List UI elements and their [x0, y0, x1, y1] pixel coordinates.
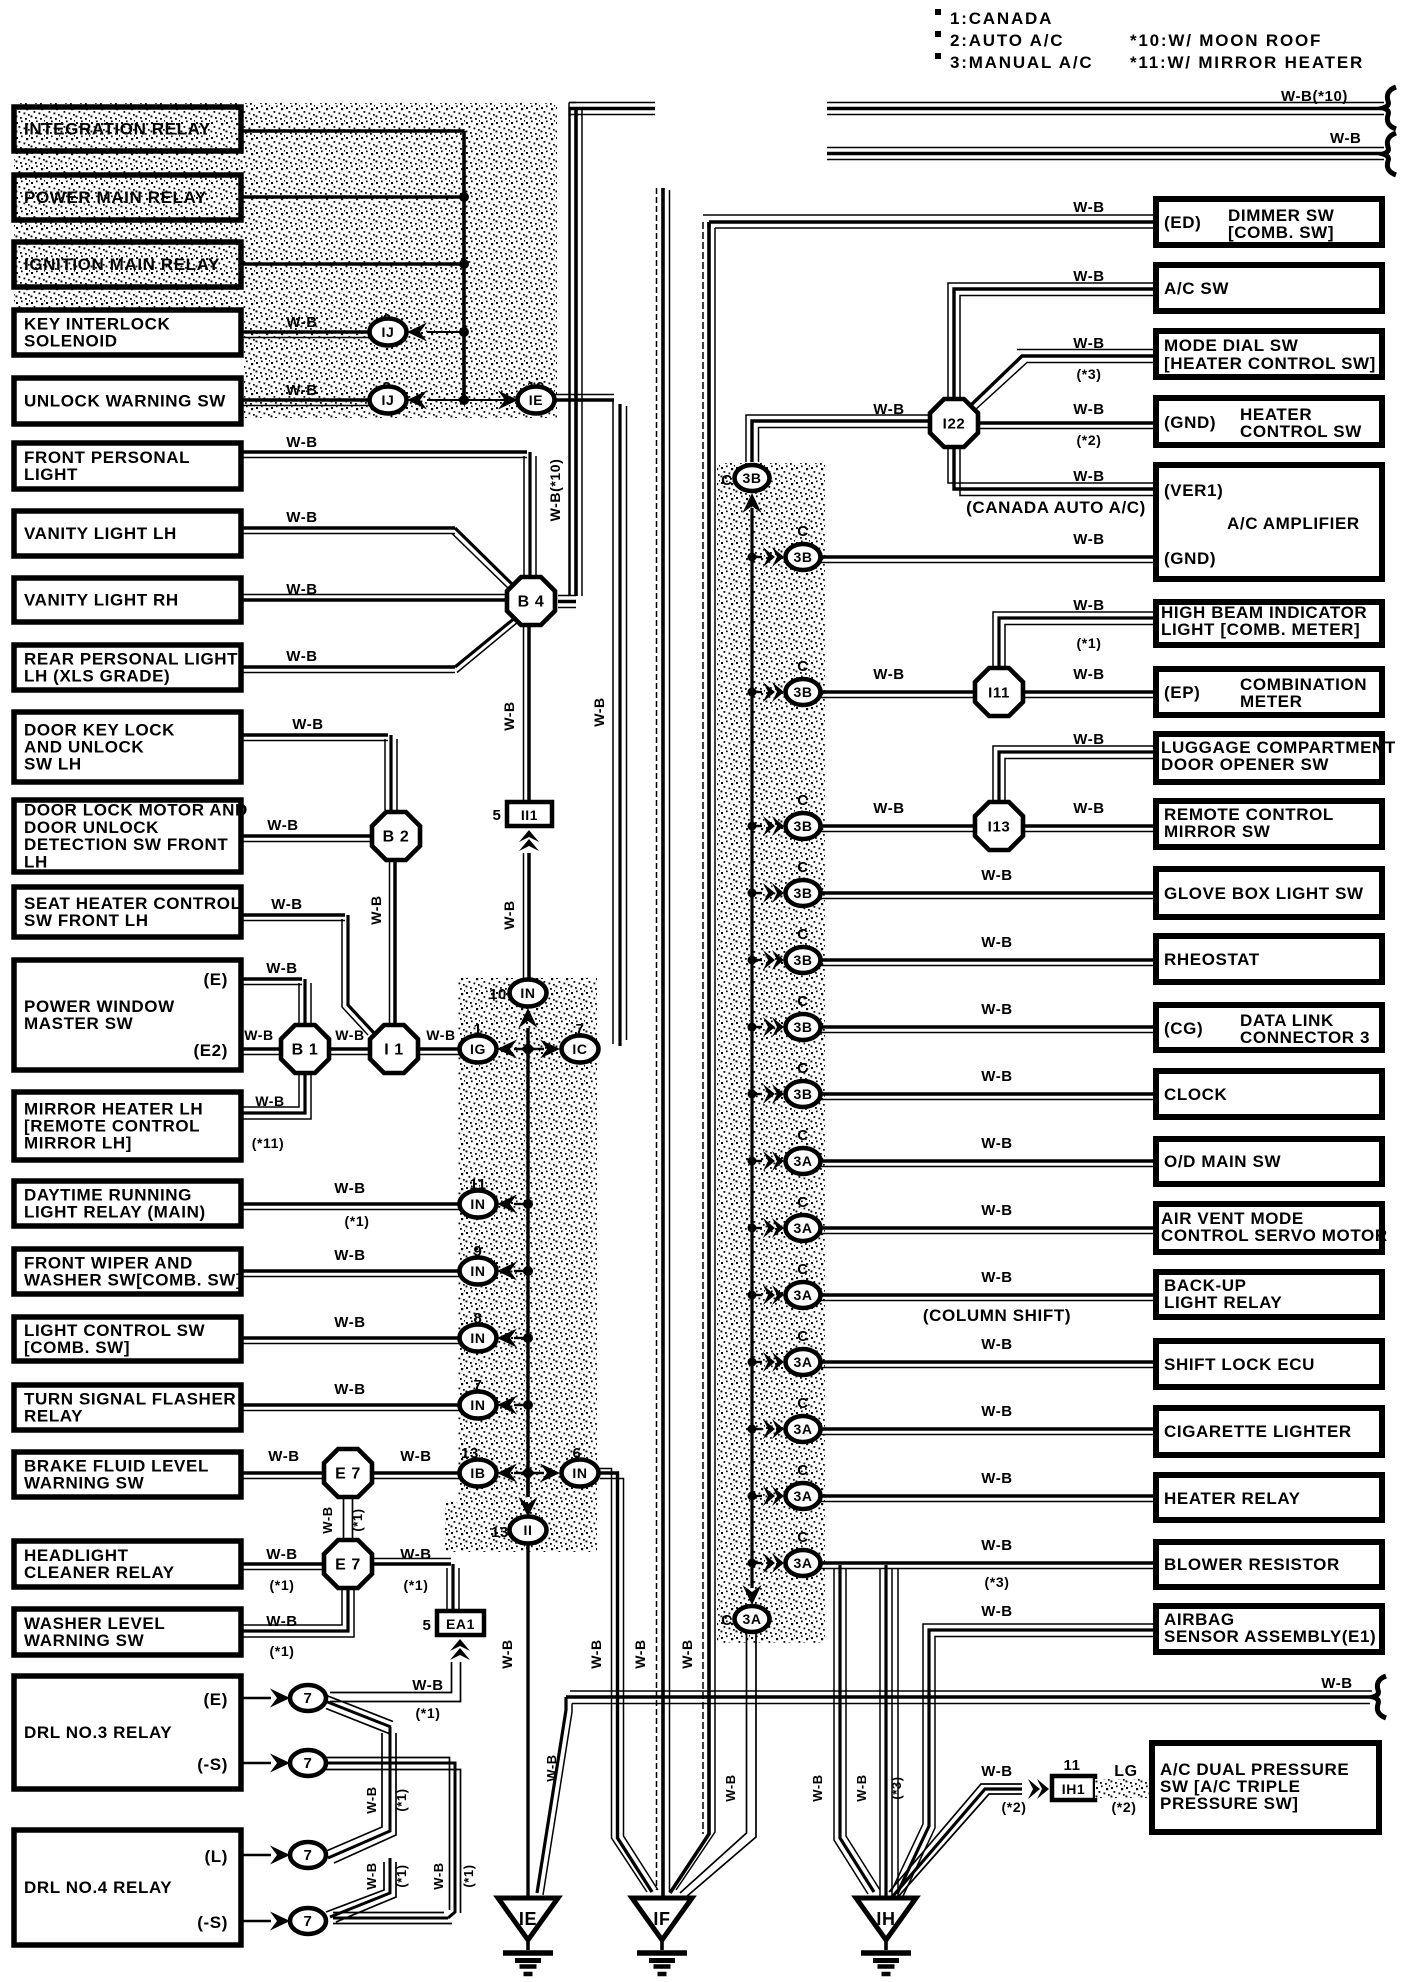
box CLOCK [1156, 1071, 1382, 1117]
svg-text:W-B: W-B [873, 401, 905, 418]
svg-text:C: C [797, 1328, 808, 1345]
junction right bus row y1295 [748, 1291, 757, 1300]
svg-text:W-B: W-B [334, 1247, 366, 1264]
box DIMMER SW [1156, 199, 1382, 245]
svg-text:W-B: W-B [981, 1135, 1013, 1152]
svg-text:LIGHT: LIGHT [24, 465, 78, 484]
wire 3B to A/C AMP GND W-B [821, 555, 1154, 559]
junction relay collector at POWER [459, 192, 469, 202]
wire centre bus to IE ground W-B [526, 1544, 529, 1898]
svg-text:REAR PERSONAL LIGHT: REAR PERSONAL LIGHT [24, 649, 238, 668]
svg-text:KEY INTERLOCK: KEY INTERLOCK [24, 314, 170, 333]
wire 3A row y1362 W-B [821, 1360, 1156, 1364]
svg-text:IC: IC [572, 1041, 587, 1057]
wire DIMMER riser bus D to IF [702, 222, 704, 1834]
svg-text:IJ: IJ [382, 392, 395, 408]
svg-text:W-B: W-B [1073, 268, 1105, 285]
svg-text:DRL NO.3 RELAY: DRL NO.3 RELAY [24, 1723, 172, 1742]
svg-text:(*3): (*3) [985, 1574, 1010, 1590]
svg-text:3B: 3B [793, 885, 812, 901]
svg-text:(EP): (EP) [1164, 683, 1200, 702]
svg-text:W-B: W-B [286, 581, 318, 598]
wire E7 to WASHER LEVEL W-B (*1) [241, 1590, 348, 1631]
svg-text:W-B: W-B [981, 1001, 1013, 1018]
svg-text:W-B: W-B [335, 1027, 365, 1043]
svg-text:IH: IH [876, 1909, 895, 1929]
svg-text:[COMB. SW]: [COMB. SW] [1228, 223, 1334, 242]
box RHEOSTAT [1156, 936, 1382, 982]
wire vertical bus A W-B(*10) to B4 [569, 109, 571, 597]
svg-text:IJ: IJ [382, 324, 395, 340]
svg-text:C: C [797, 523, 808, 540]
box HEADLIGHT CLEANER RELAY [14, 1541, 241, 1587]
wire 3B row y893 W-B [821, 891, 1156, 895]
svg-text:IN: IN [470, 1263, 485, 1279]
svg-text:W-B: W-B [1073, 731, 1105, 748]
svg-text:UNLOCK WARNING SW: UNLOCK WARNING SW [24, 392, 226, 411]
svg-text:[HEATER CONTROL SW]: [HEATER CONTROL SW] [1164, 354, 1376, 373]
wire DRL3 -S to DRL4 -S W-B (*1) [326, 1763, 455, 1918]
svg-text:BLOWER RESISTOR: BLOWER RESISTOR [1164, 1555, 1340, 1574]
svg-text:W-B: W-B [873, 666, 905, 683]
wire B4 to II1 W-B [527, 627, 531, 800]
arrow up into IN10 [519, 1008, 538, 1028]
svg-text:W-B: W-B [679, 1639, 695, 1669]
svg-text:W-B: W-B [292, 716, 324, 733]
svg-text:C: C [797, 658, 808, 675]
svg-text:INTEGRATION RELAY: INTEGRATION RELAY [24, 120, 211, 139]
box HEATER RELAY [1156, 1475, 1382, 1520]
wire diagonal into IE [537, 1697, 566, 1893]
arrow chevron into 3A row y1429 [752, 1428, 762, 1430]
svg-text:(E): (E) [204, 970, 228, 989]
connector 7 -S lower [290, 1908, 326, 1934]
wire I13 to REMOTE MIRROR W-B [1025, 824, 1156, 828]
svg-text:W-B: W-B [286, 314, 318, 331]
svg-text:IN: IN [470, 1196, 485, 1212]
wire E7 to EA1 W-B (*1) [374, 1562, 451, 1566]
junction centre bus row 7 [523, 1400, 533, 1410]
svg-text:A/C SW: A/C SW [1164, 279, 1229, 298]
svg-text:W-B: W-B [981, 1403, 1013, 1420]
arrow down into II 13 [519, 1497, 538, 1517]
wire 3A row y1228 W-B [821, 1226, 1156, 1230]
arrow chevron into II1 [519, 830, 539, 842]
box DATA LINK CONNECTOR 3 [1156, 1005, 1382, 1050]
svg-text:W-B: W-B [271, 896, 303, 913]
wire bus W-B second [827, 147, 1384, 149]
svg-text:W-B: W-B [431, 1862, 446, 1890]
svg-text:(*1): (*1) [270, 1577, 295, 1593]
wire II1 to IN10 W-B [527, 853, 531, 979]
svg-text:(*1): (*1) [461, 1864, 476, 1887]
svg-text:W-B: W-B [334, 1180, 366, 1197]
svg-text:3A: 3A [793, 1153, 812, 1169]
svg-text:1:CANADA: 1:CANADA [950, 9, 1053, 28]
svg-text:WARNING SW: WARNING SW [24, 1474, 145, 1493]
svg-text:W-B(*10): W-B(*10) [547, 459, 563, 522]
arrow into IN 8 [497, 1329, 517, 1348]
svg-text:W-B: W-B [501, 701, 517, 731]
svg-text:W-B: W-B [364, 1786, 379, 1814]
svg-text:MIRROR SW: MIRROR SW [1164, 822, 1271, 841]
svg-text:LIGHT RELAY (MAIN): LIGHT RELAY (MAIN) [24, 1203, 206, 1222]
svg-text:*10:W/ MOON ROOF: *10:W/ MOON ROOF [1130, 31, 1322, 50]
svg-text:W-B: W-B [723, 1774, 738, 1802]
svg-text:W-B: W-B [1073, 800, 1105, 817]
wire 3B row y960 W-B [821, 958, 1156, 962]
legend note 2:AUTO A/C [935, 31, 941, 37]
box VANITY LIGHT RH [14, 578, 241, 622]
svg-text:W-B: W-B [499, 1639, 515, 1669]
arrow into IN 6 [540, 1464, 560, 1483]
svg-text:W-B: W-B [591, 697, 607, 727]
svg-text:E 7: E 7 [335, 1466, 361, 1483]
svg-text:3A: 3A [742, 1611, 761, 1627]
svg-text:VANITY LIGHT RH: VANITY LIGHT RH [24, 591, 179, 610]
svg-text:W-B: W-B [400, 1448, 432, 1465]
box A/C SW [1156, 265, 1382, 311]
svg-text:W-B: W-B [268, 1448, 300, 1465]
svg-text:3A: 3A [793, 1421, 812, 1437]
svg-text:W-B: W-B [266, 1546, 298, 1563]
svg-text:IGNITION MAIN RELAY: IGNITION MAIN RELAY [24, 255, 220, 274]
svg-text:W-B: W-B [334, 1381, 366, 1398]
svg-text:(*1): (*1) [345, 1213, 370, 1229]
arrow into IG [497, 1040, 517, 1059]
shade region right bus column [717, 463, 825, 1643]
junction right bus row y1161 [748, 1157, 757, 1166]
svg-text:(*2): (*2) [1002, 1799, 1027, 1815]
box DAYTIME RUNNING LIGHT RELAY [14, 1181, 241, 1226]
junction relay collector at KEY row [459, 327, 469, 337]
svg-text:10: 10 [489, 986, 507, 1003]
svg-text:METER: METER [1240, 692, 1303, 711]
box COMBINATION METER [1156, 669, 1382, 715]
svg-text:DRL NO.4 RELAY: DRL NO.4 RELAY [24, 1878, 172, 1897]
svg-text:FRONT PERSONAL: FRONT PERSONAL [24, 448, 190, 467]
wire I22 to A/C SW W-B [954, 289, 1156, 398]
bus continuation brace top [1383, 87, 1396, 129]
svg-text:E 7: E 7 [335, 1557, 361, 1574]
svg-text:(*1): (*1) [1077, 635, 1102, 651]
ground IF [632, 1898, 692, 1940]
svg-text:[REMOTE CONTROL: [REMOTE CONTROL [24, 1117, 200, 1136]
wire centre bus vertical [526, 1028, 529, 1497]
svg-text:7: 7 [304, 1755, 313, 1772]
wire relay collector vertical [462, 131, 466, 400]
svg-text:C: C [721, 472, 732, 489]
connector 7 L [290, 1842, 326, 1868]
svg-text:(*2): (*2) [1112, 1799, 1137, 1815]
svg-text:3B: 3B [742, 470, 761, 486]
svg-text:FRONT WIPER AND: FRONT WIPER AND [24, 1253, 193, 1272]
svg-text:IE: IE [529, 392, 543, 408]
box MIRROR HEATER LH [14, 1092, 241, 1160]
svg-text:CIGARETTE LIGHTER: CIGARETTE LIGHTER [1164, 1422, 1352, 1441]
svg-text:3A: 3A [793, 1354, 812, 1370]
svg-text:3A: 3A [793, 1220, 812, 1236]
svg-text:W-B: W-B [286, 648, 318, 665]
wire DRL3 -S feed [241, 1762, 271, 1765]
svg-text:(-S): (-S) [197, 1755, 228, 1774]
svg-text:3B: 3B [793, 1019, 812, 1035]
svg-text:DOOR UNLOCK: DOOR UNLOCK [24, 818, 159, 837]
svg-text:(L): (L) [204, 1847, 228, 1866]
svg-text:IF: IF [653, 1909, 670, 1929]
connector E 7 brake [324, 1449, 372, 1497]
svg-text:SEAT HEATER CONTROL: SEAT HEATER CONTROL [24, 894, 242, 913]
svg-text:W-B: W-B [286, 434, 318, 451]
wire FRONT PERSONAL LIGHT W-B [241, 450, 527, 454]
box VANITY LIGHT LH [14, 511, 241, 556]
box POWER MAIN RELAY [14, 175, 241, 220]
arrow down into C3A [743, 1585, 762, 1605]
wire 3A to BACK-UP LIGHT RELAY W-B (COLUMN SHIFT) [821, 1293, 1156, 1297]
connector I22 [930, 399, 978, 447]
box AIR VENT MODE CONTROL SERVO MOTOR [1156, 1204, 1382, 1252]
svg-text:IG: IG [470, 1041, 486, 1057]
arrow into 7 E [270, 1689, 290, 1708]
svg-text:EA1: EA1 [446, 1616, 475, 1632]
shade region centre column [458, 978, 597, 1552]
svg-text:I22: I22 [943, 416, 966, 433]
svg-text:(COLUMN SHIFT): (COLUMN SHIFT) [923, 1306, 1071, 1325]
svg-text:W-B: W-B [544, 1754, 559, 1782]
box LUGGAGE COMPARTMENT DOOR OPENER SW [1156, 734, 1382, 782]
wire LG band (*2) [1095, 1779, 1152, 1798]
wire 3A row y1161 W-B [821, 1159, 1156, 1163]
svg-text:W-B: W-B [412, 1677, 444, 1694]
svg-text:DETECTION SW FRONT: DETECTION SW FRONT [24, 835, 228, 854]
shade region top-left harness [14, 103, 244, 310]
connector I13 [975, 802, 1023, 850]
wire I11 to COMBINATION METER W-B [1025, 690, 1156, 694]
wire DRL4 vertical link W-B (*1) [328, 1727, 390, 1858]
arrow chevron into 3B row y692 [752, 691, 762, 693]
box TURN SIGNAL FLASHER RELAY [14, 1385, 241, 1430]
svg-text:O/D MAIN SW: O/D MAIN SW [1164, 1152, 1281, 1171]
wire blower drop left to IH [840, 1565, 874, 1892]
svg-text:W-B: W-B [368, 895, 384, 925]
wire DAYTIME RUNNING W-B (*1) [241, 1202, 461, 1206]
svg-text:I 1: I 1 [384, 1042, 404, 1059]
svg-text:W-B: W-B [981, 1470, 1013, 1487]
wire 3A row y1496 W-B [821, 1494, 1156, 1498]
svg-text:POWER MAIN RELAY: POWER MAIN RELAY [24, 188, 207, 207]
svg-text:(VER1): (VER1) [1164, 481, 1223, 500]
svg-text:3B: 3B [793, 1086, 812, 1102]
svg-text:VANITY LIGHT LH: VANITY LIGHT LH [24, 524, 177, 543]
svg-text:LIGHT [COMB. METER]: LIGHT [COMB. METER] [1161, 620, 1360, 639]
legend note 1:CANADA [935, 9, 941, 15]
arrow into IC [540, 1040, 560, 1059]
svg-text:W-B: W-B [266, 960, 298, 977]
arrow chevron into 3A row y1362 [752, 1361, 762, 1363]
svg-text:3B: 3B [793, 684, 812, 700]
svg-text:C: C [797, 1261, 808, 1278]
connector B 4 [507, 577, 555, 625]
wire IGNITION MAIN RELAY feed [241, 262, 464, 266]
svg-text:SOLENOID: SOLENOID [24, 332, 118, 351]
wire B2 to I1 W-B [393, 862, 397, 1026]
svg-text:3B: 3B [793, 549, 812, 565]
svg-text:W-B: W-B [1330, 130, 1362, 147]
svg-text:W-B: W-B [1073, 199, 1105, 216]
svg-text:(*1): (*1) [404, 1577, 429, 1593]
junction right bus row y692 [748, 688, 757, 697]
connector B 1 [281, 1025, 329, 1073]
svg-text:IN: IN [520, 985, 535, 1001]
svg-text:7: 7 [304, 1913, 313, 1930]
svg-text:AND UNLOCK: AND UNLOCK [24, 738, 144, 757]
svg-text:7: 7 [304, 1847, 313, 1864]
svg-text:W-B: W-B [588, 1639, 604, 1669]
svg-text:CLEANER RELAY: CLEANER RELAY [24, 1563, 175, 1582]
svg-text:W-B: W-B [981, 1068, 1013, 1085]
legend note 3:MANUAL A/C [935, 53, 941, 59]
svg-text:W-B: W-B [501, 900, 517, 930]
wire right bus vertical [750, 508, 753, 1588]
wire bottom W-B bus to IE [570, 1690, 1372, 1692]
svg-text:W-B: W-B [810, 1774, 825, 1802]
arrow chevron into EA1 [450, 1639, 470, 1651]
junction centre bus row 9 [523, 1266, 533, 1276]
svg-text:LH: LH [24, 852, 48, 871]
wire DOOR KEY LOCK W-B [241, 733, 388, 737]
box CIGARETTE LIGHTER [1156, 1408, 1382, 1455]
wire AIRBAG to IH W-B [897, 1630, 1156, 1894]
svg-text:RELAY: RELAY [24, 1407, 83, 1426]
svg-text:W-B: W-B [981, 934, 1013, 951]
box BACK-UP LIGHT RELAY [1156, 1272, 1382, 1317]
svg-text:SHIFT LOCK ECU: SHIFT LOCK ECU [1164, 1355, 1315, 1374]
svg-text:B 2: B 2 [383, 829, 410, 846]
svg-text:CONNECTOR 3: CONNECTOR 3 [1240, 1028, 1370, 1047]
svg-text:WASHER LEVEL: WASHER LEVEL [24, 1614, 165, 1633]
arrow chevron into IH1 [1037, 1779, 1049, 1799]
junction centre bus row 8 [523, 1333, 533, 1343]
svg-text:W-B: W-B [981, 1603, 1013, 1620]
arrow into IN 7 [497, 1396, 517, 1415]
svg-text:W-B: W-B [320, 1506, 335, 1534]
wire 3A row y1429 W-B [821, 1427, 1156, 1431]
arrow into IN 11 [497, 1195, 517, 1214]
svg-text:W-B: W-B [244, 1027, 274, 1043]
svg-text:MIRROR LH]: MIRROR LH] [24, 1134, 132, 1153]
arrow chevron into 3B row y557 [752, 556, 762, 558]
wire DOOR LOCK MOTOR W-B [241, 834, 371, 838]
connector 7 E [290, 1685, 326, 1711]
arrow chevron into 3A row y1496 [752, 1495, 762, 1497]
svg-text:POWER WINDOW: POWER WINDOW [24, 997, 175, 1016]
wire EA1 to DRL3 E W-B (*1) [330, 1662, 452, 1693]
box FRONT WIPER AND WASHER SW [14, 1249, 241, 1294]
svg-text:W-B: W-B [266, 1613, 298, 1630]
svg-text:W-B: W-B [1073, 468, 1105, 485]
junction right bus row y1496 [748, 1492, 757, 1501]
svg-text:A/C AMPLIFIER: A/C AMPLIFIER [1227, 514, 1360, 533]
svg-text:W-B: W-B [981, 867, 1013, 884]
svg-text:W-B: W-B [1073, 335, 1105, 352]
svg-text:SW LH: SW LH [24, 755, 82, 774]
junction diamond IG row [514, 1048, 544, 1050]
svg-text:(E2): (E2) [193, 1041, 228, 1060]
junction centre bus row 11 [523, 1199, 533, 1209]
svg-text:W-B: W-B [1321, 1675, 1353, 1692]
junction relay collector at IGNITION [459, 259, 469, 269]
connector E 7 headlight [324, 1540, 372, 1588]
wire B1 to MIRROR HEATER W-B (*11) [241, 1075, 305, 1113]
wire I11 to HIGH BEAM W-B (*1) [999, 618, 1156, 666]
connector I11 [975, 668, 1023, 716]
svg-text:W-B(*10): W-B(*10) [1281, 88, 1348, 105]
svg-text:C: C [797, 1529, 808, 1546]
arrow into IB [497, 1464, 517, 1483]
box AIRBAG SENSOR ASSEMBLY [1156, 1606, 1382, 1652]
wire UNLOCK WARNING W-B [241, 398, 370, 402]
svg-text:CONTROL SW: CONTROL SW [1240, 422, 1362, 441]
svg-text:W-B: W-B [1073, 531, 1105, 548]
arrow chevron into 3A row y1563 [752, 1562, 762, 1564]
box O/D MAIN SW [1156, 1139, 1382, 1184]
wire I22 to HEATER CONTROL W-B (*2) [980, 421, 1156, 425]
svg-text:11: 11 [1063, 1757, 1080, 1774]
arrow chevron into 3B row y826 [752, 825, 762, 827]
svg-text:(*3): (*3) [889, 1776, 904, 1799]
svg-text:B 1: B 1 [292, 1042, 319, 1059]
wire I22 to C3B W-B [752, 421, 930, 462]
svg-text:DAYTIME RUNNING: DAYTIME RUNNING [24, 1185, 192, 1204]
svg-text:GLOVE BOX LIGHT SW: GLOVE BOX LIGHT SW [1164, 884, 1364, 903]
junction right bus row y1027 [748, 1023, 757, 1032]
arrow chevron into 3A row y1295 [752, 1294, 762, 1296]
wire TURN SIGNAL W-B [241, 1403, 461, 1407]
svg-text:W-B: W-B [981, 1202, 1013, 1219]
svg-text:(GND): (GND) [1164, 549, 1216, 568]
box HIGH BEAM INDICATOR LIGHT [1156, 602, 1382, 645]
svg-text:W-B: W-B [286, 509, 318, 526]
junction right bus row y826 [748, 822, 757, 831]
svg-text:(ED): (ED) [1164, 213, 1201, 232]
svg-text:(CANADA AUTO A/C): (CANADA AUTO A/C) [966, 498, 1146, 517]
svg-text:3B: 3B [793, 818, 812, 834]
svg-text:I13: I13 [988, 819, 1011, 836]
box FRONT PERSONAL LIGHT [14, 443, 241, 489]
svg-text:MODE DIAL SW: MODE DIAL SW [1164, 336, 1299, 355]
wire 3A to BLOWER RESISTOR W-B (*3) [821, 1561, 1156, 1565]
wire POWER MAIN RELAY feed [241, 195, 464, 199]
wire POWER WINDOW E2 W-B [241, 1047, 280, 1051]
box DRL NO.4 RELAY [14, 1830, 241, 1945]
svg-text:LG: LG [1114, 1763, 1137, 1780]
svg-text:LH (XLS GRADE): LH (XLS GRADE) [24, 667, 170, 686]
svg-text:(-S): (-S) [197, 1913, 228, 1932]
wire VANITY LIGHT RH W-B [241, 598, 506, 602]
svg-text:(GND): (GND) [1164, 413, 1216, 432]
arrow into 7 L [270, 1846, 290, 1865]
svg-text:C: C [797, 1194, 808, 1211]
svg-text:(*1): (*1) [416, 1705, 441, 1721]
arrow into IJ 3 [407, 391, 427, 410]
box SEAT HEATER CONTROL SW FRONT LH [14, 887, 241, 937]
wire IE to IC riser [554, 398, 614, 402]
svg-text:W-B: W-B [364, 1862, 379, 1890]
svg-text:W-B: W-B [1073, 597, 1105, 614]
arrow into 7 -S lower [270, 1912, 290, 1931]
svg-text:C: C [797, 1395, 808, 1412]
svg-text:W-B: W-B [334, 1314, 366, 1331]
